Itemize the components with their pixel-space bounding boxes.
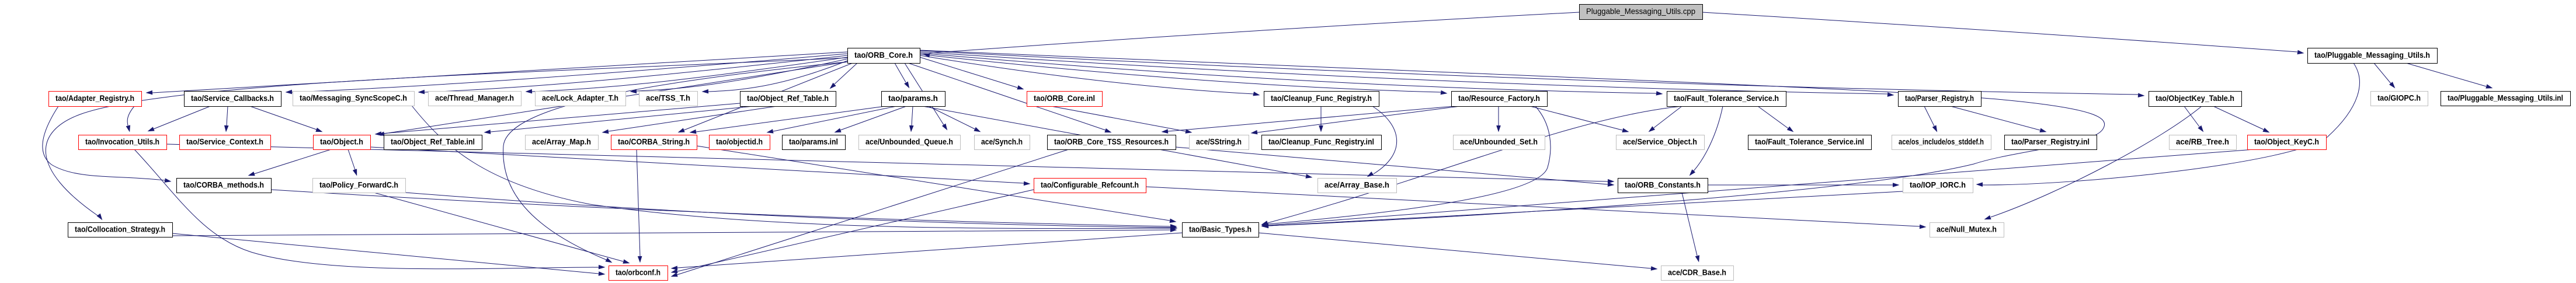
svg-text:tao/Messaging_SyncScopeC.h: tao/Messaging_SyncScopeC.h [300, 93, 407, 102]
svg-text:tao/CORBA_String.h: tao/CORBA_String.h [618, 137, 690, 146]
svg-text:ace/SString.h: ace/SString.h [1196, 137, 1242, 146]
svg-text:tao/ORB_Core.inl: tao/ORB_Core.inl [1034, 93, 1095, 103]
svg-text:ace/Array_Map.h: ace/Array_Map.h [532, 137, 591, 146]
svg-text:ace/Synch.h: ace/Synch.h [981, 137, 1023, 146]
svg-text:tao/Parser_Registry.inl: tao/Parser_Registry.inl [2011, 137, 2090, 146]
svg-text:tao/ORB_Core.h: tao/ORB_Core.h [854, 50, 913, 60]
svg-text:tao/Resource_Factory.h: tao/Resource_Factory.h [1458, 93, 1540, 103]
svg-text:tao/Policy_ForwardC.h: tao/Policy_ForwardC.h [319, 180, 398, 189]
svg-text:tao/Cleanup_Func_Registry.inl: tao/Cleanup_Func_Registry.inl [1268, 137, 1374, 146]
svg-text:tao/GIOPC.h: tao/GIOPC.h [2377, 93, 2421, 102]
svg-text:tao/orbconf.h: tao/orbconf.h [616, 267, 660, 277]
svg-text:tao/ORB_Constants.h: tao/ORB_Constants.h [1625, 180, 1701, 189]
svg-text:ace/RB_Tree.h: ace/RB_Tree.h [2176, 137, 2229, 146]
svg-text:tao/Parser_Registry.h: tao/Parser_Registry.h [1905, 93, 1974, 103]
svg-text:tao/Service_Context.h: tao/Service_Context.h [186, 137, 263, 146]
svg-text:tao/Pluggable_Messaging_Utils.: tao/Pluggable_Messaging_Utils.h [2314, 50, 2430, 60]
svg-text:tao/ObjectKey_Table.h: tao/ObjectKey_Table.h [2156, 93, 2234, 103]
svg-text:tao/Fault_Tolerance_Service.in: tao/Fault_Tolerance_Service.inl [1755, 137, 1864, 146]
svg-text:tao/Service_Callbacks.h: tao/Service_Callbacks.h [191, 93, 274, 103]
svg-text:ace/TSS_T.h: ace/TSS_T.h [646, 93, 690, 102]
svg-text:tao/IOP_IORC.h: tao/IOP_IORC.h [1910, 180, 1966, 189]
svg-text:ace/Unbounded_Set.h: ace/Unbounded_Set.h [1460, 137, 1538, 146]
svg-text:tao/Collocation_Strategy.h: tao/Collocation_Strategy.h [75, 224, 165, 233]
svg-text:tao/ORB_Core_TSS_Resources.h: tao/ORB_Core_TSS_Resources.h [1054, 137, 1169, 146]
svg-text:tao/Cleanup_Func_Registry.h: tao/Cleanup_Func_Registry.h [1271, 93, 1372, 103]
svg-text:tao/Object_KeyC.h: tao/Object_KeyC.h [2254, 137, 2319, 146]
svg-text:tao/Pluggable_Messaging_Utils.: tao/Pluggable_Messaging_Utils.inl [2448, 93, 2563, 102]
svg-text:ace/Lock_Adapter_T.h: ace/Lock_Adapter_T.h [542, 93, 618, 102]
svg-text:ace/CDR_Base.h: ace/CDR_Base.h [1668, 267, 1726, 277]
svg-text:tao/params.inl: tao/params.inl [789, 137, 838, 146]
svg-text:tao/Invocation_Utils.h: tao/Invocation_Utils.h [85, 137, 159, 146]
svg-text:ace/os_include/os_stddef.h: ace/os_include/os_stddef.h [1899, 137, 1984, 146]
svg-text:ace/Unbounded_Queue.h: ace/Unbounded_Queue.h [865, 137, 953, 146]
svg-text:tao/Object.h: tao/Object.h [320, 137, 363, 146]
svg-text:tao/Adapter_Registry.h: tao/Adapter_Registry.h [55, 93, 134, 103]
svg-text:tao/params.h: tao/params.h [888, 93, 938, 103]
svg-text:tao/Object_Ref_Table.h: tao/Object_Ref_Table.h [747, 93, 829, 103]
svg-text:ace/Array_Base.h: ace/Array_Base.h [1324, 180, 1389, 189]
svg-text:Pluggable_Messaging_Utils.cpp: Pluggable_Messaging_Utils.cpp [1586, 6, 1695, 16]
svg-text:tao/Basic_Types.h: tao/Basic_Types.h [1189, 224, 1252, 233]
svg-text:tao/Object_Ref_Table.inl: tao/Object_Ref_Table.inl [391, 137, 475, 146]
svg-text:ace/Null_Mutex.h: ace/Null_Mutex.h [1937, 224, 1997, 233]
svg-text:tao/Fault_Tolerance_Service.h: tao/Fault_Tolerance_Service.h [1674, 93, 1779, 103]
svg-text:ace/Service_Object.h: ace/Service_Object.h [1623, 137, 1697, 146]
svg-text:tao/Configurable_Refcount.h: tao/Configurable_Refcount.h [1041, 180, 1139, 189]
svg-text:tao/objectid.h: tao/objectid.h [716, 137, 763, 146]
svg-text:tao/CORBA_methods.h: tao/CORBA_methods.h [183, 180, 264, 189]
svg-text:ace/Thread_Manager.h: ace/Thread_Manager.h [435, 93, 514, 102]
